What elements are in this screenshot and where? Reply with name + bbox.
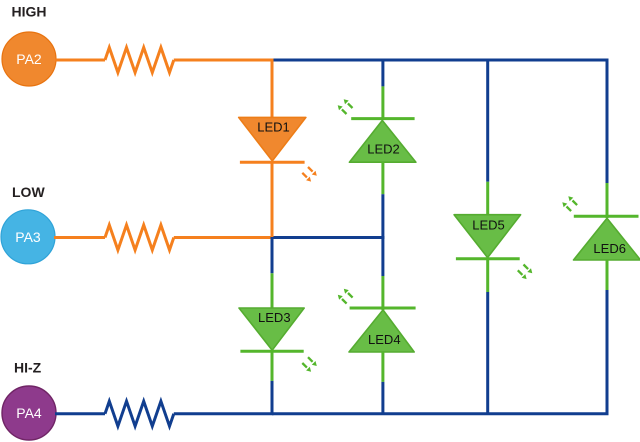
light arrows LED1: [302, 167, 317, 182]
wire node A to LED2 (blue segment): [381, 59, 384, 87]
wire LED6 anode lead (green segment): [606, 260, 609, 290]
wire LED5 anode lead (green segment): [486, 182, 489, 216]
light arrows LED5: [518, 265, 533, 280]
wire LED2 cathode lead (green segment): [381, 86, 384, 120]
wire LED4 anode lead (green segment): [381, 352, 384, 382]
resistor R3: [105, 401, 174, 426]
LED LED2: [349, 119, 416, 163]
wire PA4 to R3: [55, 412, 105, 415]
wire LED6 to node C (blue segment): [606, 290, 609, 415]
svg-text:HIGH: HIGH: [12, 4, 47, 20]
wire LED5 cathode lead (green segment): [486, 259, 489, 292]
wire node A to LED6 (blue segment): [606, 59, 609, 184]
wire LED5 to node C (blue segment): [486, 292, 489, 415]
LED LED6: [574, 216, 640, 260]
wire R2 to node B: [174, 236, 273, 239]
svg-text:LED5: LED5: [472, 217, 505, 232]
svg-text:LED2: LED2: [367, 142, 400, 157]
resistor R1: [105, 48, 174, 73]
wire LED4 to node C (blue segment): [381, 382, 384, 415]
light arrows LED4: [338, 289, 353, 304]
svg-text:LOW: LOW: [12, 184, 45, 200]
wire LED1 cathode to node B: [271, 162, 274, 239]
svg-text:LED1: LED1: [257, 120, 290, 135]
pin PA3: [1, 210, 55, 264]
light arrows LED6: [562, 196, 577, 211]
light arrows LED3: [302, 357, 317, 372]
pin PA2: [2, 32, 56, 86]
wire LED3 cathode lead (green segment): [271, 351, 274, 381]
wire LED6 cathode lead (green segment): [606, 183, 609, 218]
wire bottom rail node C: [272, 412, 609, 415]
wire LED3 to node C (blue segment): [271, 381, 274, 415]
svg-text:PA2: PA2: [16, 51, 42, 67]
svg-text:LED4: LED4: [368, 332, 401, 347]
wire R1 to node A: [174, 59, 272, 62]
svg-text:HI-Z: HI-Z: [14, 360, 42, 376]
wire LED4 cathode lead (green segment): [381, 276, 384, 310]
wire node A to LED5 (blue segment): [486, 59, 489, 182]
svg-text:LED6: LED6: [593, 241, 626, 256]
light arrows LED2: [338, 99, 353, 114]
pin PA4: [2, 386, 56, 440]
wire PA2 to R1: [55, 59, 105, 62]
wire middle rail node B: [272, 236, 384, 239]
LED LED1: [239, 117, 306, 162]
wire LED2 to node B (blue segment): [381, 194, 384, 239]
wire LED3 anode lead (green segment): [271, 273, 274, 309]
wire R3 to node C: [174, 412, 274, 415]
wire node B to LED3 (blue segment): [271, 237, 274, 273]
wire PA3 to R2: [54, 236, 105, 239]
LED LED4: [349, 308, 416, 352]
resistor R2: [105, 225, 174, 250]
wire node B to LED4 (blue segment): [381, 236, 384, 276]
svg-text:PA3: PA3: [15, 229, 41, 245]
LED LED5: [454, 215, 520, 259]
wire top rail: [271, 59, 609, 62]
wire LED2 anode lead (green segment): [381, 162, 384, 194]
LED LED3: [239, 308, 304, 351]
svg-text:PA4: PA4: [16, 405, 42, 421]
wire node A to LED1 anode: [271, 59, 274, 120]
svg-text:LED3: LED3: [258, 310, 291, 325]
